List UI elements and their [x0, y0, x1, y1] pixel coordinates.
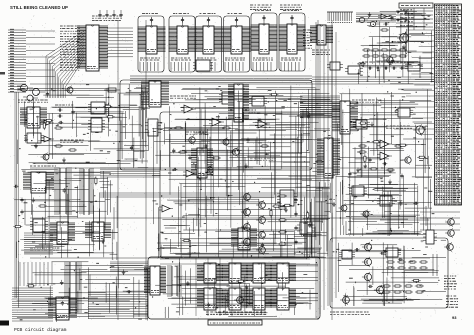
- transistor Q10: [402, 155, 411, 164]
- wire bus into table: [394, 30, 434, 135]
- IC U32: [395, 108, 413, 117]
- transistor Q1: [397, 32, 409, 44]
- caps near U10: [58, 108, 75, 117]
- wires bottom middle: [160, 258, 310, 316]
- IC U34: [377, 196, 395, 206]
- IC U5 RAM: [223, 26, 251, 54]
- wire drops below IC: [225, 17, 245, 71]
- IC U33: [349, 186, 367, 196]
- caps left column: [20, 198, 47, 215]
- section enclosure box: [169, 16, 195, 72]
- gate cluster top: [356, 14, 390, 31]
- label strip bottom: [206, 312, 266, 314]
- resistor row R15: [362, 55, 407, 57]
- IC U23: [297, 222, 315, 234]
- op-amp U24: [183, 170, 197, 177]
- IC U43: [197, 263, 223, 283]
- IC U40: [85, 222, 111, 241]
- IC U27: [332, 101, 358, 134]
- IC U45: [246, 263, 272, 283]
- IC U57: [191, 148, 213, 178]
- pin comb U36: [54, 168, 72, 214]
- resistor ladder bottom center: [278, 195, 287, 245]
- transistor Q22: [362, 257, 372, 267]
- IC U13: [24, 133, 44, 143]
- transistor Q8: [221, 138, 230, 147]
- transistor Q13: [241, 192, 250, 202]
- IC U50: [270, 288, 296, 310]
- wire bus under RAM row: [130, 76, 434, 83]
- transistor Q21: [362, 242, 372, 252]
- op-amp U29: [377, 140, 392, 148]
- resistors mid right: [358, 145, 404, 179]
- transistor Q17: [256, 200, 265, 210]
- fill pocket 5: [120, 87, 150, 168]
- crystal X1: [104, 88, 120, 92]
- wire drops below IC: [197, 17, 216, 71]
- caps bottom center: [294, 198, 297, 245]
- gate A4: [41, 136, 54, 142]
- wire bus right streak: [300, 96, 340, 117]
- gate A5: [23, 95, 38, 101]
- ground G3: [62, 158, 66, 163]
- labels left mid: [18, 100, 84, 142]
- resistor row R10: [362, 49, 407, 51]
- transistor Q23: [362, 272, 372, 282]
- left connector stubs: [8, 29, 55, 92]
- fill pocket 4: [342, 180, 429, 235]
- pin comb U37: [79, 169, 94, 215]
- transistor Q7: [204, 165, 213, 174]
- label under U8: [312, 50, 330, 54]
- label bar: [208, 320, 262, 325]
- connector rows top right: [396, 8, 433, 30]
- labels mid right: [352, 100, 412, 128]
- op-amp U30: [377, 152, 392, 160]
- IC U11: [88, 102, 108, 114]
- label above enclosure: [173, 13, 189, 15]
- op-amp U19: [255, 120, 270, 128]
- wire bus comb to table: [356, 13, 396, 22]
- main routing bus: [30, 20, 430, 320]
- transistor Q16: [241, 237, 250, 247]
- section enclosure box: [138, 16, 164, 72]
- label above enclosure: [142, 13, 158, 15]
- op-amp U25: [159, 205, 173, 212]
- IC U48: [222, 288, 248, 310]
- wire drops below IC: [140, 17, 160, 71]
- labels under section box BR: [330, 312, 370, 314]
- fill left mid: [17, 84, 148, 164]
- IC U16: [219, 92, 241, 104]
- vertical bus channel: [316, 22, 336, 318]
- title text STILL BEING CLEANED UP: [10, 5, 68, 10]
- label cluster left of U1: [60, 26, 80, 70]
- fill pocket 1: [157, 213, 200, 258]
- IC U4 RAM: [195, 26, 223, 54]
- svg-text:STILL BEING CLEANED UP: STILL BEING CLEANED UP: [10, 5, 68, 10]
- pin comb U41: [64, 262, 82, 314]
- wire drops below IC: [171, 17, 191, 71]
- IC U15: [145, 119, 161, 136]
- gate A3: [41, 120, 54, 126]
- IC U14: [141, 81, 169, 107]
- wire drops below IC: [253, 15, 273, 71]
- bus center left: [100, 168, 160, 177]
- svg-text:93: 93: [452, 315, 457, 320]
- section box bottom right: [330, 238, 448, 308]
- transistor Q20: [256, 245, 265, 255]
- wire bus into U27: [300, 101, 332, 118]
- section enclosure box: [251, 13, 277, 71]
- resistors left mid: [54, 127, 77, 151]
- caption PCB circuit diagram: [14, 327, 67, 333]
- ground G5: [244, 164, 248, 169]
- fill top right: [357, 9, 434, 84]
- labels above U6 U7: [250, 5, 302, 9]
- IC U3 RAM: [169, 26, 197, 54]
- IC U8b: [327, 62, 343, 70]
- fill left column: [13, 168, 118, 258]
- section box mid: [160, 112, 310, 258]
- ground G6: [284, 208, 288, 213]
- IC U54: [339, 250, 355, 259]
- IC U46: [270, 263, 296, 283]
- IC U49: [246, 288, 272, 310]
- resistor row BR3: [382, 285, 424, 287]
- IC U12: [88, 118, 105, 132]
- margin artifact: [0, 72, 5, 75]
- transistor Q4: [41, 153, 50, 162]
- transistor Q11: [339, 204, 348, 213]
- transistor Q14: [241, 207, 250, 217]
- IC U53: [383, 248, 401, 257]
- IC U55: [423, 230, 437, 244]
- labels right of U7: [303, 30, 312, 48]
- signal table: [435, 4, 462, 205]
- label above enclosure: [283, 10, 299, 12]
- IC U21: [231, 228, 257, 250]
- IC U42: [48, 297, 77, 320]
- svg-text:PCB circuit diagram: PCB circuit diagram: [14, 327, 67, 333]
- bus across y195: [100, 193, 330, 197]
- IC U35: [23, 172, 54, 193]
- transistor Q19: [256, 230, 265, 240]
- gate A2: [29, 89, 45, 96]
- IC U9: [405, 62, 423, 71]
- fill pocket 2: [269, 227, 327, 258]
- IC U10: [20, 107, 47, 128]
- transistor QC: [444, 242, 453, 252]
- wire bus bottom left 2: [88, 292, 148, 318]
- IC U6 RAM: [251, 24, 278, 54]
- vertical drops bottom left: [20, 262, 52, 286]
- ground G7: [356, 168, 392, 185]
- IC U8c: [345, 66, 363, 74]
- wires right low: [420, 212, 460, 276]
- labels under resistor rows: [362, 61, 409, 63]
- IC U26 timer: [193, 60, 213, 71]
- switch S1: [397, 10, 407, 13]
- transistor Q24: [374, 285, 384, 295]
- pin comb U28: [317, 138, 340, 178]
- table header box: [399, 3, 433, 8]
- pin comb U52: [167, 266, 182, 296]
- fill center: [151, 86, 333, 259]
- transistor Q5: [186, 135, 195, 144]
- IC U7 RAM: [279, 24, 306, 54]
- transistor Q9: [413, 124, 424, 135]
- fill bottom middle: [152, 258, 318, 318]
- op-amp U18: [209, 118, 224, 126]
- IC U1 CPU: [77, 25, 108, 71]
- bus center bottom: [110, 262, 148, 271]
- gate A1: [17, 85, 33, 92]
- label above enclosure: [200, 13, 216, 15]
- legend text block: [444, 276, 457, 289]
- IC U56 comb: [228, 84, 249, 122]
- labels center: [170, 96, 276, 160]
- page number 93: [452, 315, 457, 320]
- section enclosure box: [224, 16, 250, 72]
- wire bus bottom left: [12, 288, 53, 321]
- wire bus left low: [24, 233, 53, 254]
- ground G1: [402, 45, 406, 50]
- label cluster above U1: [92, 16, 122, 20]
- transistor Q2: [384, 55, 393, 64]
- resistor network RN1 comb: [327, 12, 353, 23]
- IC U51: [144, 266, 166, 295]
- components center: [174, 127, 269, 161]
- transistor Q3: [65, 86, 74, 95]
- cap row above U1: [98, 10, 122, 18]
- fill center band: [152, 110, 318, 315]
- transistor Q15: [241, 222, 250, 232]
- section box bottom middle: [148, 257, 320, 319]
- black tab marker: [0, 321, 9, 326]
- transistor Q25: [340, 295, 349, 305]
- resistor row BR4: [382, 291, 424, 293]
- IC U20: [249, 96, 267, 106]
- cap row topright: [368, 66, 405, 69]
- transistor Q12: [361, 210, 370, 219]
- fill pocket 3: [306, 175, 335, 259]
- labels left column: [30, 166, 59, 250]
- section enclosure box: [279, 13, 305, 71]
- section enclosure box: [196, 16, 222, 72]
- op-amp U17: [181, 105, 196, 113]
- IC U38: [30, 219, 48, 232]
- IC U8: [310, 25, 333, 45]
- left bus vertical: [15, 92, 18, 298]
- resistor row BR2: [386, 267, 428, 269]
- IC U47: [197, 288, 223, 310]
- transistor Q26: [234, 295, 243, 305]
- resistor row BR1: [386, 261, 428, 263]
- handwritten note: [446, 296, 458, 307]
- fill mid right: [332, 89, 434, 236]
- fill bottom left: [17, 261, 149, 322]
- fill pocket 6: [99, 171, 117, 260]
- ground G4: [198, 176, 202, 181]
- IC U31: [353, 120, 370, 129]
- transistor Q6: [230, 147, 239, 157]
- switch S2: [397, 18, 407, 21]
- transistor QB: [445, 228, 454, 238]
- ground G2: [34, 144, 38, 149]
- IC U22: [277, 190, 297, 206]
- label above enclosure: [228, 13, 242, 15]
- IC U44: [222, 263, 248, 283]
- address bus fan: [46, 31, 84, 98]
- section box center: [120, 80, 312, 170]
- wire bus U1 to RAM row: [107, 28, 133, 57]
- wire drops below IC: [281, 15, 301, 71]
- IC U39: [50, 222, 75, 244]
- transistor Q18: [256, 215, 265, 225]
- transistor QA: [445, 217, 454, 227]
- IC U2 RAM: [138, 26, 166, 54]
- label above enclosure: [255, 10, 271, 12]
- fill bottom right: [333, 240, 446, 306]
